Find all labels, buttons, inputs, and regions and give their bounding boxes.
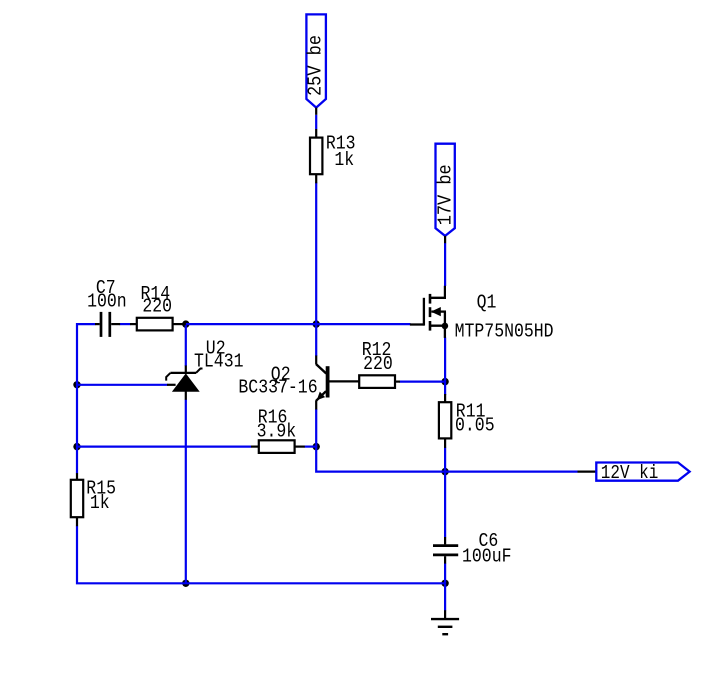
- capacitor C6: [433, 537, 458, 564]
- wire bottom node to ground: [444, 583, 446, 610]
- node junction dot at R14/U2: [182, 320, 189, 327]
- wire R12 to source node: [400, 381, 446, 383]
- transistor Q2 BC337-16: [316, 356, 359, 410]
- supply flag 25V be: [305, 14, 327, 114]
- wire REF row: left rail to U2: [77, 384, 168, 386]
- svg-text:MTP75N05HD: MTP75N05HD: [455, 321, 554, 343]
- node junction dot at R13/gate/Q2 collector: [313, 320, 320, 327]
- wire Q2 emitter down and to output row: [316, 409, 445, 472]
- wire R16 to emitter node: [305, 446, 317, 448]
- shunt regulator U2 TL431: [166, 366, 202, 400]
- node junction dot left rail R16 row: [73, 443, 80, 450]
- wire C6 to bottom rail node: [444, 563, 446, 583]
- node junction dot R11 bottom/output row: [441, 468, 448, 475]
- output flag 12V ki: [578, 462, 690, 484]
- wire left rail top to C7: [77, 324, 96, 473]
- node junction dot at R12/R11 top: [441, 378, 448, 385]
- node junction dot left rail REF row: [73, 381, 80, 388]
- svg-text:0.05: 0.05: [455, 415, 495, 437]
- wire R11 bottom to output node: [444, 448, 446, 472]
- svg-text:220: 220: [363, 353, 393, 375]
- svg-text:17V be: 17V be: [435, 164, 457, 225]
- wire 17V flag to Q1 drain: [444, 243, 446, 286]
- svg-text:TL431: TL431: [194, 351, 244, 373]
- wire left rail R15 bottom to bottom rail corner: [77, 526, 445, 584]
- wire U2 anode down to bottom rail: [185, 400, 187, 584]
- svg-text:100uF: 100uF: [462, 546, 512, 568]
- MOSFET Q1 MTP75N05HD: [410, 286, 448, 338]
- resistor R12: [359, 375, 400, 388]
- resistor R15: [71, 473, 83, 526]
- node junction dot U2 anode/bottom rail: [182, 580, 189, 587]
- capacitor C7: [95, 312, 120, 337]
- wire output row to 12V ki flag: [445, 471, 577, 473]
- svg-text:220: 220: [142, 296, 172, 318]
- wire U2 cathode up to main row: [185, 324, 187, 366]
- svg-text:100n: 100n: [87, 291, 127, 313]
- node junction dot C6 bottom/ground: [441, 580, 448, 587]
- resistor R14: [130, 318, 186, 331]
- svg-text:BC337-16: BC337-16: [238, 376, 317, 398]
- resistor R13: [310, 129, 322, 183]
- svg-text:12V ki: 12V ki: [601, 462, 659, 484]
- wire output node down to C6: [444, 472, 446, 538]
- svg-text:Q1: Q1: [477, 291, 497, 313]
- resistor R16: [251, 440, 305, 453]
- node junction dot R16/Q2 emitter: [313, 443, 320, 450]
- wire C7 to R14: [120, 323, 131, 325]
- wire Q2 collector from gate node: [315, 324, 317, 356]
- supply flag 17V be: [435, 144, 457, 244]
- ground symbol: [431, 610, 459, 634]
- wire R13 to gate node: [315, 183, 317, 325]
- resistor R11: [439, 394, 451, 448]
- wire 25V flag to R13: [315, 115, 317, 129]
- wire main row: R14 node to Q1 gate: [186, 323, 411, 325]
- svg-text:3.9k: 3.9k: [257, 421, 297, 443]
- wire Q1 source to R12 node: [444, 338, 446, 396]
- svg-text:1k: 1k: [334, 149, 354, 171]
- wire R16 row: left rail to R16: [77, 446, 251, 448]
- svg-text:1k: 1k: [90, 492, 110, 514]
- svg-text:25V be: 25V be: [305, 35, 327, 96]
